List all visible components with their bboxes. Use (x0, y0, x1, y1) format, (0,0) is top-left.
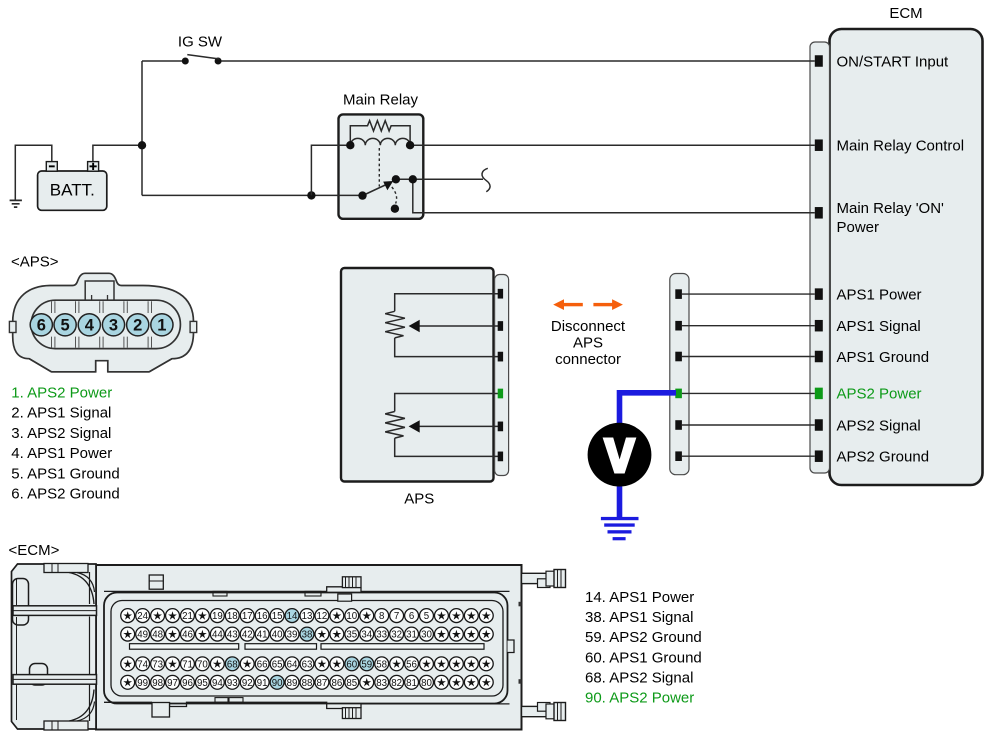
svg-text:APS: APS (404, 490, 434, 507)
pin: harness connector pin row 1 (675, 289, 682, 299)
svg-text:1: 1 (157, 317, 166, 335)
svg-text:41: 41 (257, 630, 268, 641)
ECM connector pin 42 (240, 627, 254, 641)
wire: harness pin 3 to ECM (682, 356, 815, 358)
svg-text:18: 18 (227, 611, 238, 622)
relay armature mechanical link (dashed) (378, 148, 380, 187)
ECM connector unused cavity r1c3 (151, 609, 165, 623)
svg-text:86: 86 (331, 678, 342, 689)
ECM connector pin 48 (151, 627, 165, 641)
wire: IG SW to ECM ON/START (221, 60, 814, 62)
wire: vertical feed from top wire to battery row (141, 61, 143, 195)
svg-text:95: 95 (197, 678, 208, 689)
pin: ECM APS1 Signal (815, 320, 823, 332)
ECM connector unused cavity r4c1 (121, 675, 135, 689)
ECM connector unused cavity r3c14 (315, 657, 329, 671)
ECM connector lock rail (lower) (13, 675, 97, 685)
svg-text:14. APS1 Power: 14. APS1 Power (585, 589, 694, 606)
junction: battery feed node (138, 141, 146, 149)
ECM connector pin 96 (181, 675, 195, 689)
ECM connector pin 80 (420, 675, 434, 689)
ECM connector unused cavity r1c4 (166, 609, 180, 623)
svg-text:APS1 Signal: APS1 Signal (837, 318, 921, 335)
pin: harness connector pin row 6 (675, 451, 682, 461)
relay Main Relay (339, 92, 424, 219)
svg-text:14: 14 (287, 611, 298, 622)
APS connector pin 3 (102, 314, 124, 336)
ECM connector unused cavity r3c7 (210, 657, 224, 671)
ECM connector pin 10 (345, 609, 359, 623)
ECM connector pin 7 (390, 609, 404, 623)
wire: harness pin 4 to ECM (682, 392, 815, 394)
pin: ECM APS1 Power (815, 288, 823, 300)
ECM connector unused cavity r4c17 (360, 675, 374, 689)
svg-text:10: 10 (346, 611, 357, 622)
ECM connector pin 43 (225, 627, 239, 641)
wire: voltmeter to ground (blue) (617, 487, 623, 518)
label: ECM Main Relay ON Power (2 lines) (837, 200, 945, 236)
ECM connector unused cavity r3c9 (240, 657, 254, 671)
APS connector housing (face view) (13, 273, 194, 372)
svg-text:7: 7 (394, 611, 399, 622)
svg-text:8: 8 (379, 611, 384, 622)
svg-text:91: 91 (257, 678, 268, 689)
ECM connector unused cavity r1c15 (330, 609, 344, 623)
pin: APS connector sensor-side pin 2 (498, 321, 503, 331)
svg-text:34: 34 (361, 630, 372, 641)
ECM connector pin 40 (270, 627, 284, 641)
ECM connector pin 39 (285, 627, 299, 641)
node: relay NO contact (392, 175, 400, 183)
svg-text:88: 88 (302, 678, 313, 689)
svg-text:65: 65 (272, 659, 283, 670)
svg-text:60: 60 (346, 659, 357, 670)
ECM connector pin 12 (315, 609, 329, 623)
svg-text:6: 6 (37, 317, 46, 335)
ECM connector unused cavity r4c22 (434, 675, 448, 689)
svg-text:IG SW: IG SW (178, 33, 223, 50)
svg-text:5: 5 (61, 317, 70, 335)
ECM connector unused cavity r2c6 (195, 627, 209, 641)
ECM connector unused cavity r2c23 (449, 627, 463, 641)
wire: harness pin 1 to ECM (682, 293, 815, 295)
svg-text:16: 16 (257, 611, 268, 622)
ECM connector pin 68 (225, 657, 239, 671)
pin: ECM Main Relay ON Power (815, 207, 823, 219)
svg-text:6: 6 (409, 611, 414, 622)
ECM connector pin 44 (210, 627, 224, 641)
resistor: APS2 track (385, 412, 405, 439)
pin: ECM APS2 Ground (815, 450, 823, 462)
pin: APS connector sensor-side pin 1 (498, 289, 503, 299)
ECM connector unused cavity r1c24 (464, 609, 478, 623)
ECM connector pin 21 (181, 609, 195, 623)
ECM connector pin 58 (375, 657, 389, 671)
resistor: relay coil suppression resistor (350, 121, 410, 143)
wiper: APS2 arrow (409, 420, 498, 432)
wire: IG SW feed (top) (142, 60, 182, 62)
svg-text:42: 42 (242, 630, 253, 641)
svg-text:73: 73 (152, 659, 163, 670)
ECM connector pin 89 (285, 675, 299, 689)
APS connector pin 2 (127, 314, 149, 336)
symbol: disconnect arrows (553, 299, 623, 310)
note: Disconnect APS connector (551, 318, 626, 368)
wire: relay coil to ECM Main Relay Control (410, 144, 815, 146)
ECM connector unused cavity r3c1 (121, 657, 135, 671)
potentiometer APS2 (lower) wiring (395, 394, 498, 457)
APS connector strip (harness side) (670, 274, 689, 475)
ECM connector pin 49 (136, 627, 150, 641)
ECM connector pin 82 (390, 675, 404, 689)
ECM connector pin 97 (166, 675, 180, 689)
svg-text:5: 5 (424, 611, 429, 622)
ECM connector unused cavity r3c15 (330, 657, 344, 671)
resistor: APS1 track (385, 311, 405, 338)
pin: ECM ON/START Input (815, 55, 823, 67)
svg-text:80: 80 (421, 678, 432, 689)
ECM connector unused cavity r2c14 (315, 627, 329, 641)
svg-text:90. APS2 Power: 90. APS2 Power (585, 690, 694, 707)
ECM connector pin 74 (136, 657, 150, 671)
svg-text:96: 96 (182, 678, 193, 689)
svg-text:81: 81 (406, 678, 417, 689)
ECM connector pin 5 (420, 609, 434, 623)
ECM connector pin 92 (240, 675, 254, 689)
ECM connector unused cavity r1c17 (360, 609, 374, 623)
ECM connector pin 99 (136, 675, 150, 689)
ECM connector pin 35 (345, 627, 359, 641)
svg-text:13: 13 (302, 611, 313, 622)
pin: ECM APS1 Ground (815, 351, 823, 363)
svg-text:30: 30 (421, 630, 432, 641)
pin: APS connector sensor-side pin 4 (498, 389, 503, 399)
svg-text:APS2 Ground: APS2 Ground (837, 449, 930, 466)
ECM connector pin 86 (330, 675, 344, 689)
wiper: APS1 arrow (409, 320, 498, 332)
ECM connector unused cavity r4c23 (449, 675, 463, 689)
ECM connector pin-field inner wall (111, 601, 503, 697)
ECM connector pin 90 (270, 675, 284, 689)
APS connector cavity divider (148, 301, 151, 348)
ECM connector unused cavity r2c4 (166, 627, 180, 641)
ECM connector pin 6 (405, 609, 419, 623)
ECM connector pin 19 (210, 609, 224, 623)
ECM connector bottom edge keying (104, 698, 510, 719)
svg-text:Main Relay Control: Main Relay Control (837, 138, 965, 155)
ECM connector unused cavity r4c25 (479, 675, 493, 689)
pin: ECM APS2 Power (815, 388, 823, 400)
ECM connector unused cavity r3c24 (464, 657, 478, 671)
wire: harness pin 2 to ECM (682, 325, 815, 327)
svg-text:APS2 Signal: APS2 Signal (837, 417, 921, 434)
pin: APS connector sensor-side pin 3 (498, 352, 503, 362)
node: relay common (pivot) (358, 191, 366, 199)
ECM connector pin 33 (375, 627, 389, 641)
ECM connector pin 94 (210, 675, 224, 689)
ECM connector pin 91 (255, 675, 269, 689)
svg-text:Power: Power (837, 219, 880, 236)
wire break squiggle (482, 168, 490, 192)
ECM connector pin 88 (300, 675, 314, 689)
svg-text:24: 24 (137, 611, 148, 622)
svg-text:98: 98 (152, 678, 163, 689)
ECM connector unused cavity r3c19 (390, 657, 404, 671)
wire: relay contact to ECM Main Relay ON Power (413, 179, 815, 213)
svg-text:56: 56 (406, 659, 417, 670)
svg-text:6. APS2 Ground: 6. APS2 Ground (11, 486, 119, 503)
wire: junction up to relay coil (311, 145, 350, 195)
ECM connector pin 46 (181, 627, 195, 641)
svg-text:<ECM>: <ECM> (9, 542, 60, 559)
ECM connector housing edge notches (519, 602, 522, 684)
node: relay NC contact (391, 205, 399, 213)
ECM connector lock rail (upper) (13, 606, 97, 616)
svg-text:92: 92 (242, 678, 253, 689)
svg-text:Disconnect: Disconnect (551, 318, 626, 335)
ECM connector unused cavity r2c22 (434, 627, 448, 641)
svg-text:39: 39 (287, 630, 298, 641)
APS sensor box (341, 268, 494, 507)
ECM connector pin 64 (285, 657, 299, 671)
node: relay output (409, 175, 417, 183)
svg-text:90: 90 (272, 678, 283, 689)
ECM box U1 (830, 5, 983, 485)
ground: battery chassis ground (10, 200, 22, 207)
ECM connector pin 81 (405, 675, 419, 689)
svg-text:40: 40 (272, 630, 283, 641)
switch IG SW (178, 33, 223, 64)
svg-text:Main Relay: Main Relay (343, 92, 419, 109)
pin: harness connector pin row 3 (675, 352, 682, 362)
svg-text:46: 46 (182, 630, 193, 641)
junction: relay coil tap (307, 191, 315, 199)
ECM connector left lock bracket (12, 564, 97, 731)
svg-text:60. APS1 Ground: 60. APS1 Ground (585, 649, 702, 666)
svg-text:31: 31 (406, 630, 417, 641)
pin: harness connector pin row 5 (675, 420, 682, 430)
ECM connector top edge keying (104, 575, 510, 601)
ECM connector unused cavity r2c25 (479, 627, 493, 641)
svg-text:<APS>: <APS> (11, 254, 59, 271)
pin: ECM APS2 Signal (815, 419, 823, 431)
svg-text:63: 63 (302, 659, 313, 670)
battery BATT (38, 162, 107, 211)
pin: APS connector sensor-side pin 5 (498, 422, 503, 432)
svg-text:70: 70 (197, 659, 208, 670)
ECM connector pin 95 (195, 675, 209, 689)
APS connector cavity divider (76, 301, 79, 348)
svg-text:APS2 Power: APS2 Power (837, 386, 922, 403)
svg-text:2. APS1 Signal: 2. APS1 Signal (11, 405, 111, 422)
ECM connector row divider bars (130, 644, 485, 650)
APS connector cavity row (31, 300, 180, 348)
svg-text:19: 19 (212, 611, 223, 622)
ECM connector pin 85 (345, 675, 359, 689)
ECM connector pin 30 (420, 627, 434, 641)
svg-text:99: 99 (137, 678, 148, 689)
ECM connector strip (810, 42, 830, 473)
ECM connector pin 60 (345, 657, 359, 671)
svg-text:43: 43 (227, 630, 238, 641)
ground: voltmeter earth (blue) (601, 517, 639, 540)
ECM connector main housing (96, 565, 522, 730)
svg-text:89: 89 (287, 678, 298, 689)
ECM connector right edge key tab (508, 640, 515, 653)
svg-text:66: 66 (257, 659, 268, 670)
svg-text:ECM: ECM (889, 5, 922, 22)
svg-text:32: 32 (391, 630, 402, 641)
wire: voltmeter probe to APS2 Power (blue) (620, 393, 677, 423)
ECM connector unused cavity r1c22 (434, 609, 448, 623)
pin: harness connector pin row 4 (675, 389, 682, 399)
ECM connector pin 83 (375, 675, 389, 689)
svg-text:48: 48 (152, 630, 163, 641)
ECM connector pin-field outer shroud (104, 593, 508, 704)
svg-text:38. APS1 Signal: 38. APS1 Signal (585, 609, 693, 626)
APS connector pin 4 (78, 314, 100, 336)
pin: harness connector pin row 2 (675, 321, 682, 331)
svg-text:35: 35 (346, 630, 357, 641)
svg-text:15: 15 (272, 611, 283, 622)
ECM connector pin 56 (405, 657, 419, 671)
svg-text:21: 21 (182, 611, 193, 622)
inductor: relay coil (350, 138, 410, 145)
svg-text:44: 44 (212, 630, 223, 641)
svg-text:4: 4 (85, 317, 95, 335)
svg-text:38: 38 (302, 630, 313, 641)
svg-text:68. APS2 Signal: 68. APS2 Signal (585, 669, 693, 686)
svg-text:85: 85 (346, 678, 357, 689)
svg-text:1. APS2 Power: 1. APS2 Power (11, 385, 112, 402)
ECM connector pin 18 (225, 609, 239, 623)
wire: relay contact output with break (396, 178, 483, 180)
svg-text:71: 71 (182, 659, 193, 670)
svg-text:58: 58 (376, 659, 387, 670)
svg-text:93: 93 (227, 678, 238, 689)
wire: battery + to junction (93, 145, 142, 161)
pin: APS connector sensor-side pin 6 (498, 452, 503, 462)
svg-text:59. APS2 Ground: 59. APS2 Ground (585, 629, 702, 646)
svg-text:59: 59 (361, 659, 372, 670)
ECM connector unused cavity r1c1 (121, 609, 135, 623)
svg-text:97: 97 (167, 678, 178, 689)
svg-text:APS: APS (573, 335, 603, 352)
ECM connector unused cavity r1c6 (195, 609, 209, 623)
svg-text:5. APS1 Ground: 5. APS1 Ground (11, 465, 119, 482)
ECM connector pin 41 (255, 627, 269, 641)
potentiometer APS1 (upper) wiring (395, 294, 498, 357)
APS connector cavity divider (52, 301, 55, 348)
svg-text:49: 49 (137, 630, 148, 641)
ECM connector pin 65 (270, 657, 284, 671)
ECM connector right mounting arm (bottom) (522, 703, 566, 721)
ECM connector pin 70 (195, 657, 209, 671)
ECM connector pin 17 (240, 609, 254, 623)
ECM connector unused cavity r3c21 (420, 657, 434, 671)
APS connector side lock notches (9, 321, 196, 332)
ECM connector pin 8 (375, 609, 389, 623)
ECM connector unused cavity r3c23 (449, 657, 463, 671)
ECM connector unused cavity r2c24 (464, 627, 478, 641)
svg-text:Main Relay 'ON': Main Relay 'ON' (837, 200, 945, 217)
APS connector strip (sensor side) (495, 275, 509, 476)
svg-text:33: 33 (376, 630, 387, 641)
ECM connector pin 66 (255, 657, 269, 671)
svg-text:2: 2 (133, 317, 142, 335)
relay armature throw arc (dashed) (392, 187, 397, 204)
node: relay coil right terminal (406, 141, 414, 149)
ECM connector pin 32 (390, 627, 404, 641)
ECM connector unused cavity r2c15 (330, 627, 344, 641)
ECM connector pin 15 (270, 609, 284, 623)
ECM connector pin 93 (225, 675, 239, 689)
APS connector pin 1 (151, 314, 173, 336)
svg-text:74: 74 (137, 659, 148, 670)
wire: harness pin 5 to ECM (682, 424, 815, 426)
ECM connector pin 71 (181, 657, 195, 671)
ECM connector pin 14 (285, 609, 299, 623)
ECM connector pin 24 (136, 609, 150, 623)
ECM connector pin 73 (151, 657, 165, 671)
ECM connector pin 98 (151, 675, 165, 689)
svg-text:connector: connector (555, 351, 621, 368)
svg-text:12: 12 (317, 611, 328, 622)
svg-text:3: 3 (109, 317, 118, 335)
APS connector cavity divider (100, 301, 103, 348)
ECM connector pin 87 (315, 675, 329, 689)
svg-text:17: 17 (242, 611, 253, 622)
svg-text:3. APS2 Signal: 3. APS2 Signal (11, 425, 111, 442)
ECM connector pin 31 (405, 627, 419, 641)
APS connector pin 6 (30, 314, 52, 336)
pin: ECM Main Relay Control (815, 139, 823, 151)
wire: harness pin 6 to ECM (682, 455, 815, 457)
APS connector pin 5 (54, 314, 76, 336)
APS connector cavity divider (124, 301, 127, 348)
ECM connector unused cavity r4c24 (464, 675, 478, 689)
wire: bottom feed to relay switch (142, 194, 363, 196)
svg-text:68: 68 (227, 659, 238, 670)
ECM connector unused cavity r3c25 (479, 657, 493, 671)
ECM connector pin 13 (300, 609, 314, 623)
relay switch armature with arrow (363, 181, 394, 196)
ECM connector unused cavity r3c4 (166, 657, 180, 671)
ECM connector pin 16 (255, 609, 269, 623)
ECM connector right mounting arm (top) (522, 570, 566, 588)
svg-text:BATT.: BATT. (50, 181, 95, 200)
ECM connector unused cavity r3c22 (434, 657, 448, 671)
ECM connector pin 34 (360, 627, 374, 641)
ECM connector unused cavity r1c23 (449, 609, 463, 623)
svg-text:82: 82 (391, 678, 402, 689)
ECM connector unused cavity r1c25 (479, 609, 493, 623)
ECM connector unused cavity r2c1 (121, 627, 135, 641)
svg-text:APS1 Power: APS1 Power (837, 286, 922, 303)
ECM connector pin 59 (360, 657, 374, 671)
svg-text:94: 94 (212, 678, 223, 689)
ECM connector pin 63 (300, 657, 314, 671)
wire: battery - to chassis ground (15, 145, 52, 200)
ECM connector pin 38 (300, 627, 314, 641)
meter V1 voltmeter (588, 423, 652, 487)
svg-text:83: 83 (376, 678, 387, 689)
svg-text:4. APS1 Power: 4. APS1 Power (11, 445, 112, 462)
node: relay coil left terminal (346, 141, 354, 149)
svg-text:87: 87 (317, 678, 328, 689)
svg-text:64: 64 (287, 659, 298, 670)
svg-text:APS1 Ground: APS1 Ground (837, 349, 930, 366)
